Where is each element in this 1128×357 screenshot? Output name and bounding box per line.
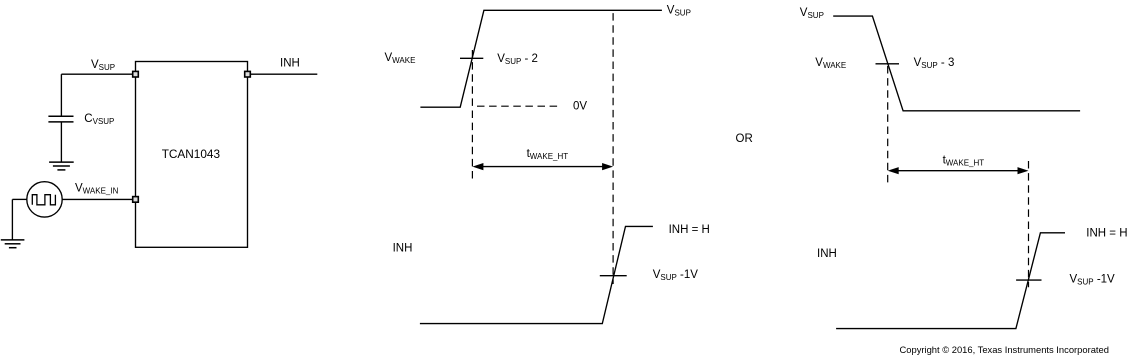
svg-text:INH: INH [817,248,837,260]
svg-text:OR: OR [736,133,753,145]
svg-text:INH = H: INH = H [669,224,710,236]
svg-text:INH: INH [280,58,300,70]
svg-text:INH = H: INH = H [1086,228,1127,240]
svg-text:0V: 0V [573,100,587,112]
svg-text:INH: INH [393,243,413,255]
svg-text:TCAN1043: TCAN1043 [162,147,221,161]
svg-text:Copyright © 2016, Texas Instru: Copyright © 2016, Texas Instruments Inco… [900,344,1109,355]
